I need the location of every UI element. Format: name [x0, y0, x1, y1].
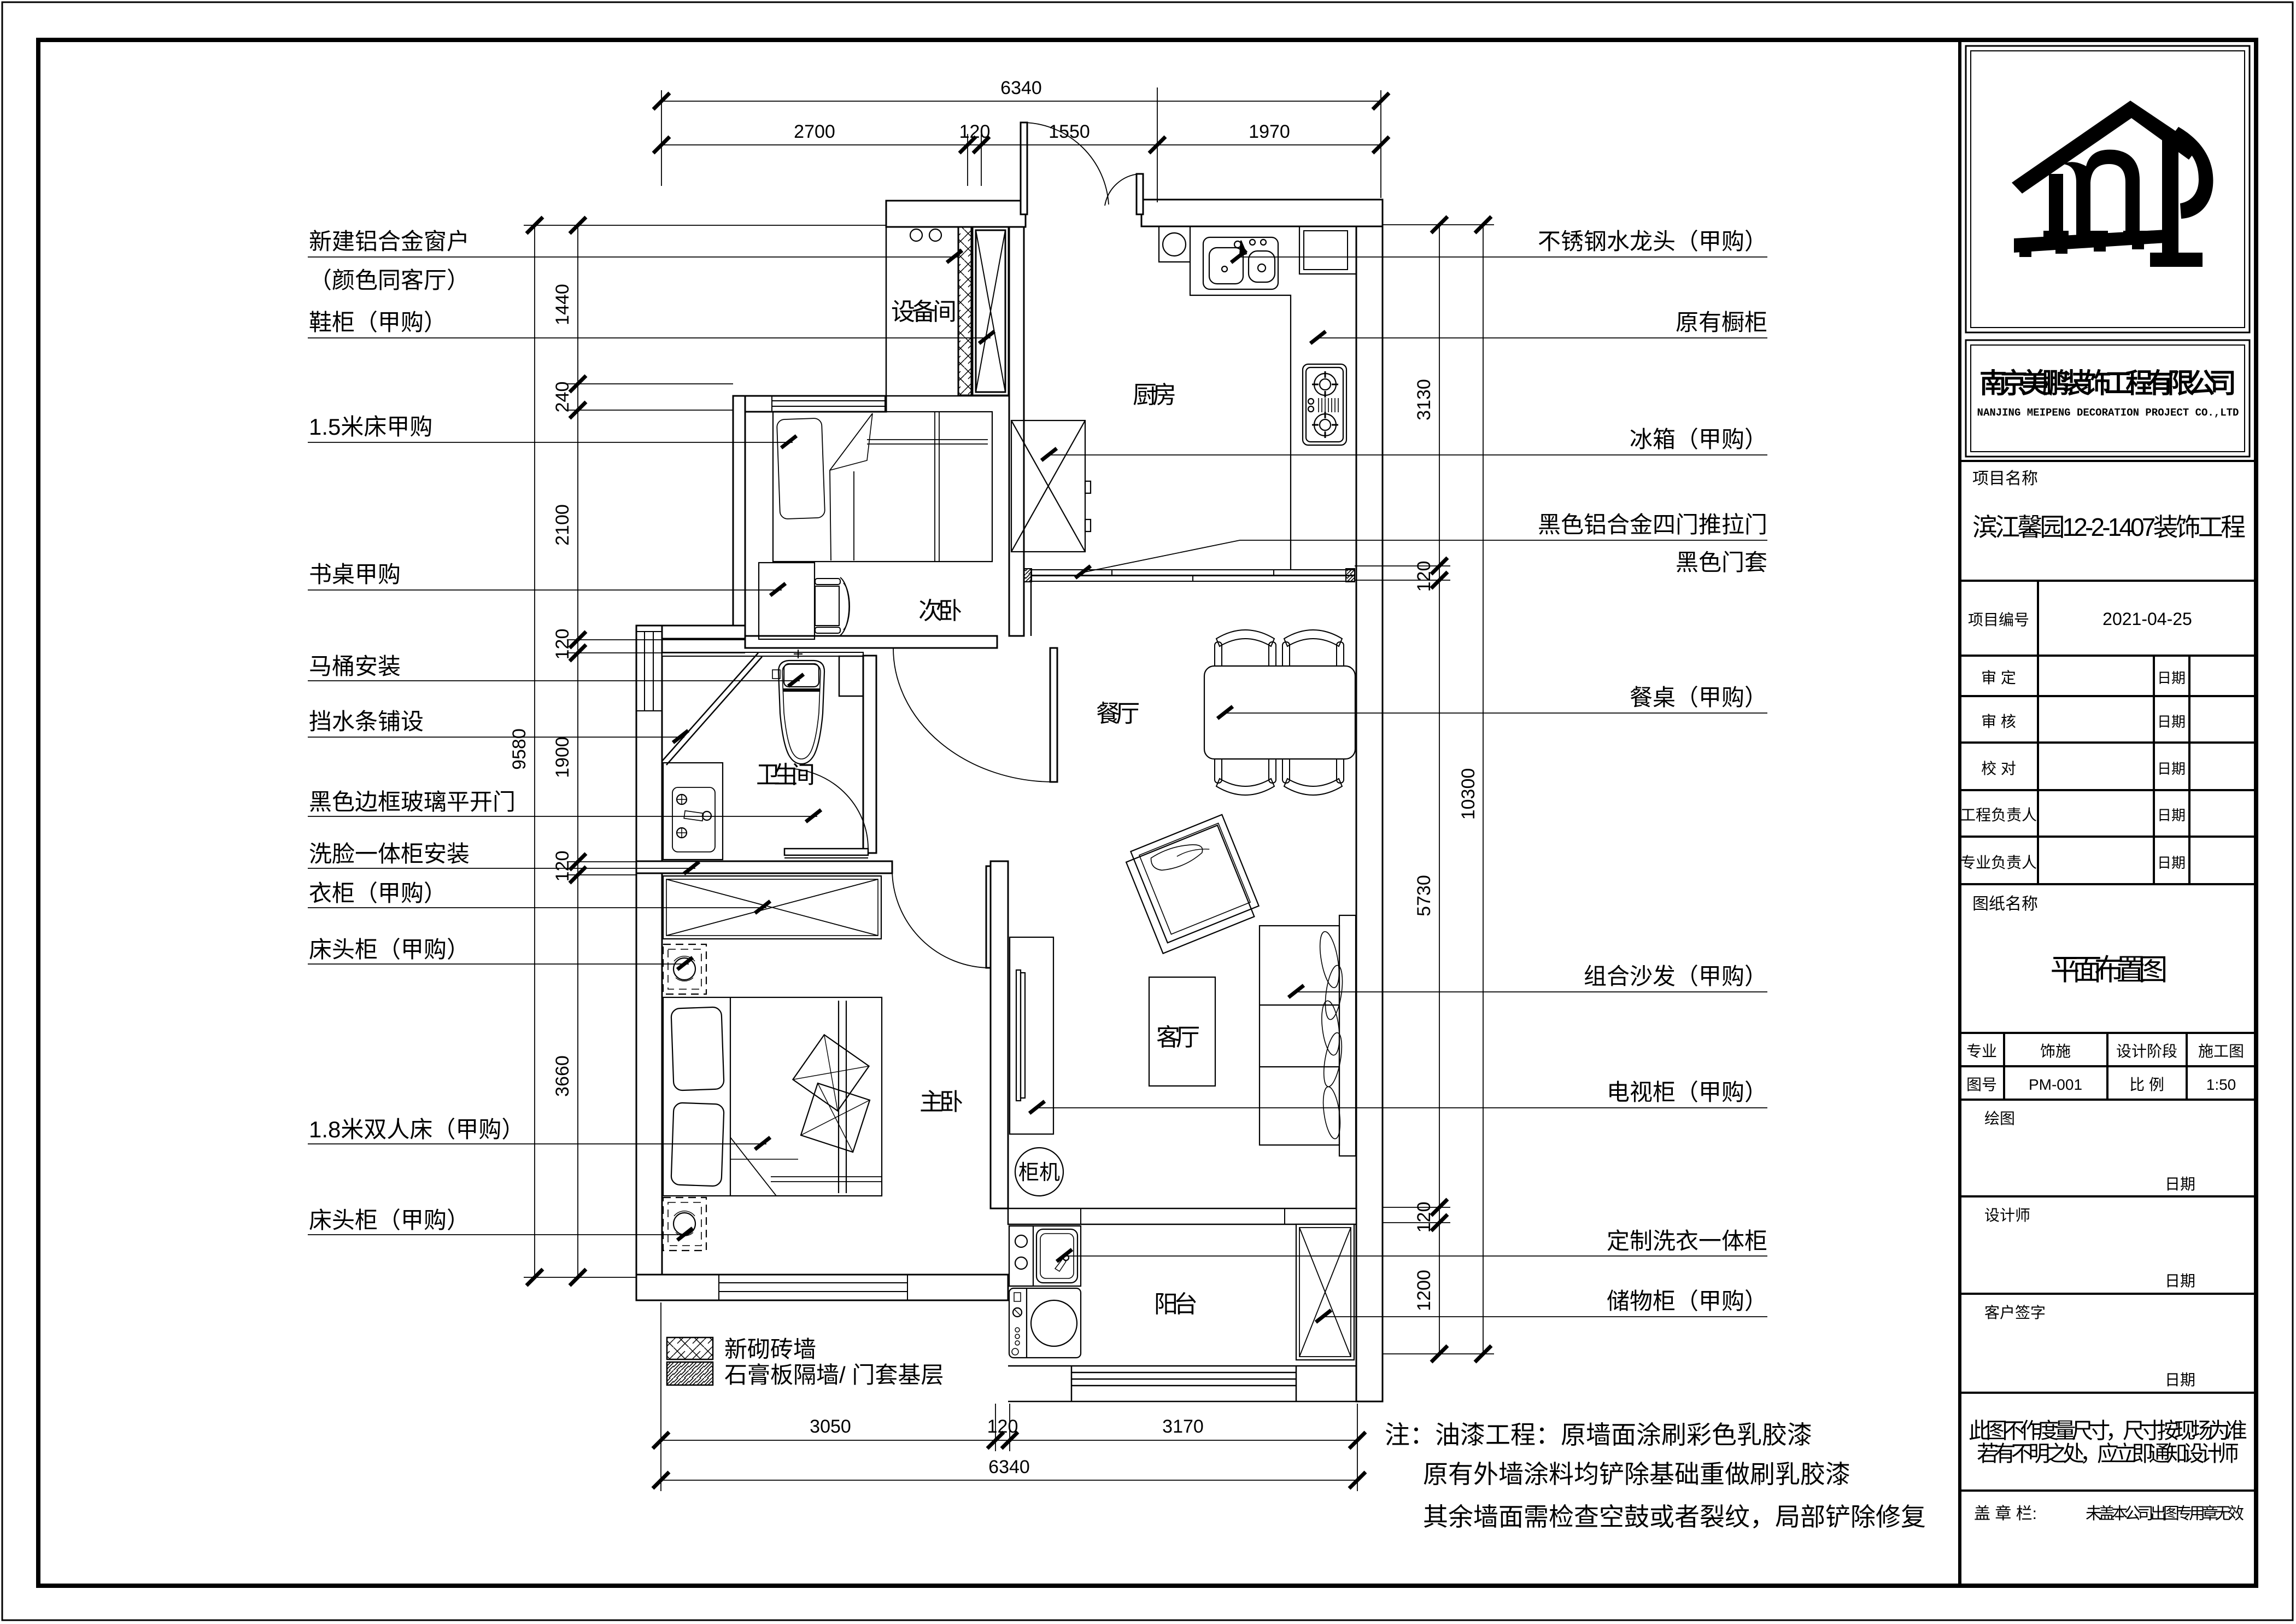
- svg-text:专业: 专业: [1966, 1043, 1997, 1060]
- dining chairs bottom: [1215, 743, 1344, 795]
- svg-text:240: 240: [552, 382, 573, 413]
- bed2 in bedroom2: [773, 412, 992, 562]
- master bed: [663, 997, 882, 1196]
- svg-text:120: 120: [552, 851, 573, 882]
- top extension lines: [661, 90, 662, 186]
- window bathroom left wall: [636, 632, 662, 711]
- svg-text:图纸名称: 图纸名称: [1972, 895, 2038, 913]
- svg-text:3170: 3170: [1162, 1416, 1204, 1437]
- entry door leaf big: [1021, 122, 1027, 214]
- nightstand1 dashed: [663, 944, 706, 994]
- svg-text:图号: 图号: [1966, 1076, 1997, 1093]
- svg-text:日期: 日期: [2165, 1371, 2195, 1388]
- tv cabinet: [1010, 937, 1053, 1134]
- svg-text:书桌甲购: 书桌甲购: [309, 562, 401, 587]
- svg-text:平面布置图: 平面布置图: [2051, 954, 2168, 986]
- svg-text:定制洗衣一体柜: 定制洗衣一体柜: [1607, 1228, 1767, 1254]
- wall master right: [991, 861, 1008, 1208]
- entry door arc big: [1024, 122, 1109, 205]
- svg-text:黑色边框玻璃平开门: 黑色边框玻璃平开门: [309, 789, 516, 815]
- svg-text:设计师: 设计师: [1984, 1207, 2030, 1224]
- svg-text:新建铝合金窗户: 新建铝合金窗户: [309, 229, 470, 254]
- wall new brick hatched partition: [958, 227, 971, 395]
- dining chairs top: [1215, 630, 1344, 682]
- svg-text:阳台: 阳台: [1154, 1291, 1198, 1318]
- dimension ticks: [526, 93, 1491, 1488]
- svg-text:日期: 日期: [2165, 1272, 2195, 1289]
- bathroom door sill: [784, 857, 868, 858]
- wall left exterior tall: [636, 626, 662, 1300]
- svg-text:比 例: 比 例: [2129, 1076, 2164, 1093]
- svg-text:卫生间: 卫生间: [756, 762, 815, 788]
- svg-text:（颜色同客厅）: （颜色同客厅）: [309, 267, 470, 293]
- balcony washing machine: [1009, 1288, 1081, 1358]
- svg-text:洗脸一体柜安装: 洗脸一体柜安装: [309, 841, 470, 867]
- wall bathroom top: [662, 652, 863, 656]
- bathroom door arc: [784, 768, 868, 849]
- AC unit circle: [1015, 1148, 1063, 1196]
- bathroom door leaf: [784, 849, 868, 855]
- roof band: [2012, 101, 2199, 194]
- leader lines right: [1036, 257, 1767, 1317]
- svg-text:2021-04-25: 2021-04-25: [2102, 609, 2192, 629]
- svg-text:挡水条铺设: 挡水条铺设: [309, 709, 424, 734]
- paint notes: [1385, 1421, 1926, 1531]
- wall bedroom2 left: [733, 396, 745, 636]
- title block divider: [1958, 40, 1961, 1585]
- balcony washer sink unit: [1009, 1226, 1081, 1286]
- svg-text:盖 章 栏:: 盖 章 栏:: [1974, 1505, 2037, 1523]
- svg-text:2700: 2700: [794, 121, 835, 142]
- svg-text:1.8米双人床（甲购）: 1.8米双人床（甲购）: [309, 1117, 524, 1142]
- bottom total dim line: [661, 1480, 1357, 1481]
- wall balcony bottom window band: [1008, 1366, 1383, 1401]
- company logo: [2012, 101, 2213, 267]
- labels right column: [1538, 229, 1767, 1314]
- door bedroom2 arc: [893, 648, 1054, 782]
- nightstand2 dashed: [663, 1197, 706, 1251]
- svg-text:项目名称: 项目名称: [1972, 470, 2038, 488]
- room labels: [756, 299, 1200, 1318]
- svg-text:冰箱（甲购）: 冰箱（甲购）: [1630, 427, 1767, 452]
- dining table: [1204, 666, 1355, 759]
- svg-text:6340: 6340: [1000, 78, 1042, 98]
- svg-text:餐桌（甲购）: 餐桌（甲购）: [1630, 685, 1767, 710]
- svg-text:南京美鹏装饰工程有限公司: 南京美鹏装饰工程有限公司: [1979, 368, 2236, 399]
- svg-text:设备间: 设备间: [891, 299, 957, 325]
- svg-text:未盖本公司出图专用章无效: 未盖本公司出图专用章无效: [2086, 1505, 2244, 1523]
- svg-text:新砌砖墙: 新砌砖墙: [724, 1336, 816, 1362]
- svg-text:日期: 日期: [2157, 670, 2186, 686]
- gas stove: [1303, 364, 1346, 445]
- left segment dim line: [577, 225, 578, 1277]
- wall bathroom right: [863, 656, 876, 853]
- fridge: [1011, 420, 1091, 552]
- svg-text:不锈钢水龙头（甲购）: 不锈钢水龙头（甲购）: [1538, 229, 1767, 254]
- wall master top: [636, 861, 892, 873]
- bottom segment dim line: [661, 1440, 1357, 1441]
- desk chair: [815, 577, 850, 635]
- svg-text:1900: 1900: [552, 737, 573, 778]
- wall equipment room left partition: [886, 227, 887, 396]
- wall top left of entry: [886, 201, 1026, 227]
- base bar: [2014, 230, 2166, 253]
- leader ticks right: [1029, 250, 1331, 1322]
- svg-text:3660: 3660: [552, 1055, 573, 1097]
- basin counter: [663, 763, 723, 860]
- svg-text:120: 120: [987, 1416, 1018, 1437]
- logo box: [1966, 46, 2250, 332]
- svg-text:1970: 1970: [1249, 121, 1290, 142]
- wall top right of entry: [1141, 200, 1383, 226]
- svg-text:原有外墙涂料均铲除基础重做刷乳胶漆: 原有外墙涂料均铲除基础重做刷乳胶漆: [1423, 1460, 1850, 1488]
- svg-text:客户签字: 客户签字: [1984, 1304, 2046, 1321]
- legend gypsum hatch: [667, 1362, 713, 1385]
- svg-text:日期: 日期: [2157, 855, 2186, 871]
- svg-text:日期: 日期: [2157, 807, 2186, 823]
- kitchen sink: [1203, 237, 1278, 289]
- entry door arc small: [1105, 174, 1140, 206]
- labels left column: [309, 229, 524, 1233]
- sliding door 4 panel: [1024, 569, 1355, 582]
- right extension lines: [1383, 224, 1494, 225]
- svg-text:120: 120: [552, 629, 573, 660]
- legend brick hatch: [667, 1337, 713, 1359]
- title block grid lines: [1960, 461, 2256, 1491]
- entry door leaf small: [1137, 174, 1143, 214]
- top total dim line: [661, 101, 1381, 102]
- p bowl and stem: [2170, 127, 2213, 219]
- svg-text:1440: 1440: [552, 284, 573, 325]
- svg-text:注：油漆工程：原墙面涂刷彩色乳胶漆: 注：油漆工程：原墙面涂刷彩色乳胶漆: [1385, 1421, 1812, 1449]
- svg-text:施工图: 施工图: [2198, 1043, 2244, 1060]
- leader ticks left: [673, 250, 994, 1240]
- svg-text:床头柜（甲购）: 床头柜（甲购）: [309, 937, 470, 962]
- lounge chair rotated: [1123, 815, 1262, 954]
- svg-text:鞋柜（甲购）: 鞋柜（甲购）: [309, 309, 447, 335]
- dimension texts: [509, 78, 1479, 1477]
- svg-text:黑色铝合金四门推拉门: 黑色铝合金四门推拉门: [1538, 512, 1767, 538]
- svg-text:柜机: 柜机: [1018, 1161, 1060, 1184]
- door master leaf: [986, 866, 994, 968]
- svg-text:石膏板隔墙/ 门套基层: 石膏板隔墙/ 门套基层: [724, 1362, 944, 1388]
- wall equipment room bottom line: [886, 395, 1009, 397]
- door bedroom2 leaf: [1050, 648, 1057, 782]
- shoe cabinet: [973, 227, 1009, 395]
- svg-text:120: 120: [959, 121, 991, 142]
- svg-text:工程负责人: 工程负责人: [1960, 807, 2037, 823]
- svg-text:此图不作度量尺寸，尺寸按现场为准: 此图不作度量尺寸，尺寸按现场为准: [1969, 1419, 2247, 1443]
- existing cabinet corner kitchen: [1299, 226, 1356, 274]
- wall bedroom2 bottom: [745, 636, 997, 648]
- company name box: [1966, 340, 2250, 457]
- svg-text:1200: 1200: [1414, 1270, 1434, 1311]
- svg-text:客厅: 客厅: [1156, 1024, 1200, 1051]
- wall bedroom2 top with window: [733, 396, 886, 412]
- svg-text:衣柜（甲购）: 衣柜（甲购）: [309, 880, 447, 906]
- dimension lines: [524, 87, 1494, 1491]
- wardrobe with X: [663, 876, 881, 939]
- wall bathroom chamfer diagonal: [662, 653, 762, 765]
- coffee table: [1149, 977, 1215, 1086]
- svg-text:3130: 3130: [1414, 379, 1434, 420]
- door master arc: [892, 871, 990, 968]
- svg-text:次卧: 次卧: [918, 598, 962, 624]
- svg-text:审 定: 审 定: [1981, 669, 2016, 686]
- wall balcony top: [1008, 1208, 1356, 1224]
- svg-text:设计阶段: 设计阶段: [2116, 1043, 2177, 1060]
- svg-text:NANJING MEIPENG DECORATION PRO: NANJING MEIPENG DECORATION PROJECT CO.,L…: [1977, 407, 2239, 419]
- svg-text:绘图: 绘图: [1984, 1110, 2015, 1127]
- svg-text:主卧: 主卧: [919, 1089, 963, 1115]
- svg-text:审 核: 审 核: [1981, 713, 2016, 730]
- svg-text:120: 120: [1414, 561, 1434, 592]
- svg-text:其余墙面需检查空鼓或者裂纹，局部铲除修复: 其余墙面需检查空鼓或者裂纹，局部铲除修复: [1423, 1503, 1926, 1531]
- wall right exterior: [1356, 226, 1383, 1401]
- kitchen counter edge: [1190, 262, 1291, 570]
- svg-text:日期: 日期: [2157, 761, 2186, 777]
- washer hookup circles equipment room: [910, 229, 922, 241]
- legend: [667, 1336, 944, 1388]
- svg-text:1550: 1550: [1049, 121, 1090, 142]
- svg-text:滨江馨园12-2-1407装饰工程: 滨江馨园12-2-1407装饰工程: [1972, 513, 2246, 541]
- svg-text:日期: 日期: [2157, 714, 2186, 730]
- svg-text:3050: 3050: [810, 1416, 851, 1437]
- top segment dim line: [661, 144, 1381, 145]
- svg-text:专业负责人: 专业负责人: [1960, 854, 2037, 871]
- desk bedroom2: [759, 563, 815, 639]
- duct shaft box bathroom: [839, 656, 863, 696]
- svg-text:饰施: 饰施: [2040, 1043, 2071, 1060]
- right segment dim line: [1439, 225, 1440, 1354]
- svg-text:5730: 5730: [1414, 875, 1434, 916]
- svg-text:校 对: 校 对: [1981, 760, 2016, 777]
- svg-text:马桶安装: 马桶安装: [309, 653, 401, 679]
- leader lines left: [308, 257, 991, 1235]
- svg-text:10300: 10300: [1458, 768, 1479, 820]
- svg-text:厨房: 厨房: [1133, 382, 1176, 408]
- svg-text:床头柜（甲购）: 床头柜（甲购）: [309, 1207, 470, 1233]
- wall between bedroom2 and kitchen: [1009, 227, 1024, 636]
- svg-text:电视柜（甲购）: 电视柜（甲购）: [1607, 1079, 1767, 1105]
- m letter: [2049, 150, 2140, 235]
- left total dim line: [534, 225, 535, 1277]
- svg-text:2100: 2100: [552, 504, 573, 546]
- svg-text:6340: 6340: [988, 1457, 1030, 1477]
- svg-text:黑色门套: 黑色门套: [1676, 550, 1767, 575]
- sofa: [1260, 915, 1356, 1156]
- svg-text:PM-001: PM-001: [2029, 1076, 2082, 1093]
- svg-text:原有橱柜: 原有橱柜: [1676, 309, 1767, 335]
- svg-text:若有不明之处，应立即通知设计师: 若有不明之处，应立即通知设计师: [1977, 1442, 2239, 1466]
- svg-text:1:50: 1:50: [2206, 1076, 2236, 1093]
- svg-text:日期: 日期: [2165, 1176, 2195, 1193]
- svg-text:餐厅: 餐厅: [1096, 700, 1140, 727]
- wall step left top of bathroom: [636, 626, 745, 639]
- svg-text:1.5米床甲购: 1.5米床甲购: [309, 414, 432, 440]
- kitchen water heater box: [1159, 226, 1190, 262]
- svg-text:120: 120: [1414, 1202, 1434, 1233]
- svg-text:组合沙发（甲购）: 组合沙发（甲购）: [1584, 963, 1767, 989]
- tv panel: [1016, 970, 1025, 1101]
- right total dim line: [1483, 225, 1484, 1354]
- svg-text:储物柜（甲购）: 储物柜（甲购）: [1607, 1288, 1767, 1314]
- left extension lines: [524, 225, 886, 226]
- wall master bottom with window: [636, 1275, 1008, 1300]
- wall stub below sliding door: [1030, 581, 1032, 636]
- storage cabinet balcony: [1296, 1224, 1354, 1360]
- svg-text:9580: 9580: [509, 728, 530, 770]
- toilet: [772, 650, 824, 764]
- bottom extension lines: [660, 1302, 661, 1491]
- svg-text:项目编号: 项目编号: [1968, 611, 2029, 628]
